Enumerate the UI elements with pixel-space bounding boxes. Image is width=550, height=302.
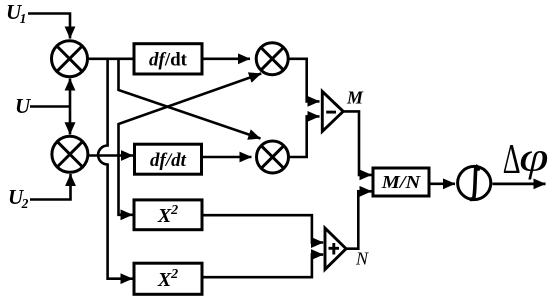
svg-text:M/N: M/N (381, 172, 422, 192)
svg-text:df/dt: df/dt (150, 150, 187, 171)
plus sign (329, 247, 340, 250)
wire branch ub diagonal to M3 (119, 74, 262, 156)
multiplier M2 (52, 136, 88, 172)
multiplier M4 (257, 141, 289, 173)
svg-text:df/dt: df/dt (149, 50, 188, 71)
svg-text:N: N (355, 249, 369, 269)
wire U2 to M2 (30, 174, 71, 200)
svg-text:M: M (346, 88, 364, 108)
box M/N (373, 168, 429, 196)
subtractor triangle (322, 91, 343, 131)
wire M2 to df/dt box 2 (88, 154, 133, 157)
wire branch ub down to X^2 box 1 (119, 156, 133, 215)
wire M/N to integrator (429, 183, 455, 186)
svg-text:Δ: Δ (503, 135, 521, 182)
box df/dt 1 (134, 44, 202, 74)
wire branch ua diagonal to M4 (119, 59, 261, 139)
multiplier M3 (256, 43, 288, 75)
wire X^2 1 to adder (202, 215, 323, 242)
integrator circle (458, 166, 491, 199)
box X^2 1 (134, 200, 202, 230)
wire df/dt2 to M4 (202, 156, 252, 159)
wire X^2 2 to adder (202, 255, 323, 278)
arrow U to M1 (69, 79, 72, 107)
minus sign (326, 111, 336, 114)
wire subtractor to M/N (343, 111, 372, 174)
wire U1 to M1 (28, 14, 70, 39)
output arrow (492, 182, 545, 185)
wire U horizontal (30, 105, 70, 108)
wire adder to M/N (346, 191, 372, 248)
wire M4 to subtractor (289, 116, 320, 157)
box X^2 2 (134, 263, 202, 294)
wire branch ua down with hop over M2 wire, to X^2 box 2 (98, 59, 132, 279)
svg-text:φ: φ (519, 135, 548, 180)
wire M1 to df/dt box 1 (88, 57, 135, 60)
wire df/dt1 to M3 (202, 57, 250, 60)
arrow U to M2 (69, 107, 72, 135)
box df/dt 2 (135, 144, 202, 174)
adder triangle (325, 228, 346, 269)
multiplier M1 (52, 41, 88, 77)
svg-text:U: U (15, 94, 32, 118)
wire M3 to subtractor (288, 59, 319, 102)
